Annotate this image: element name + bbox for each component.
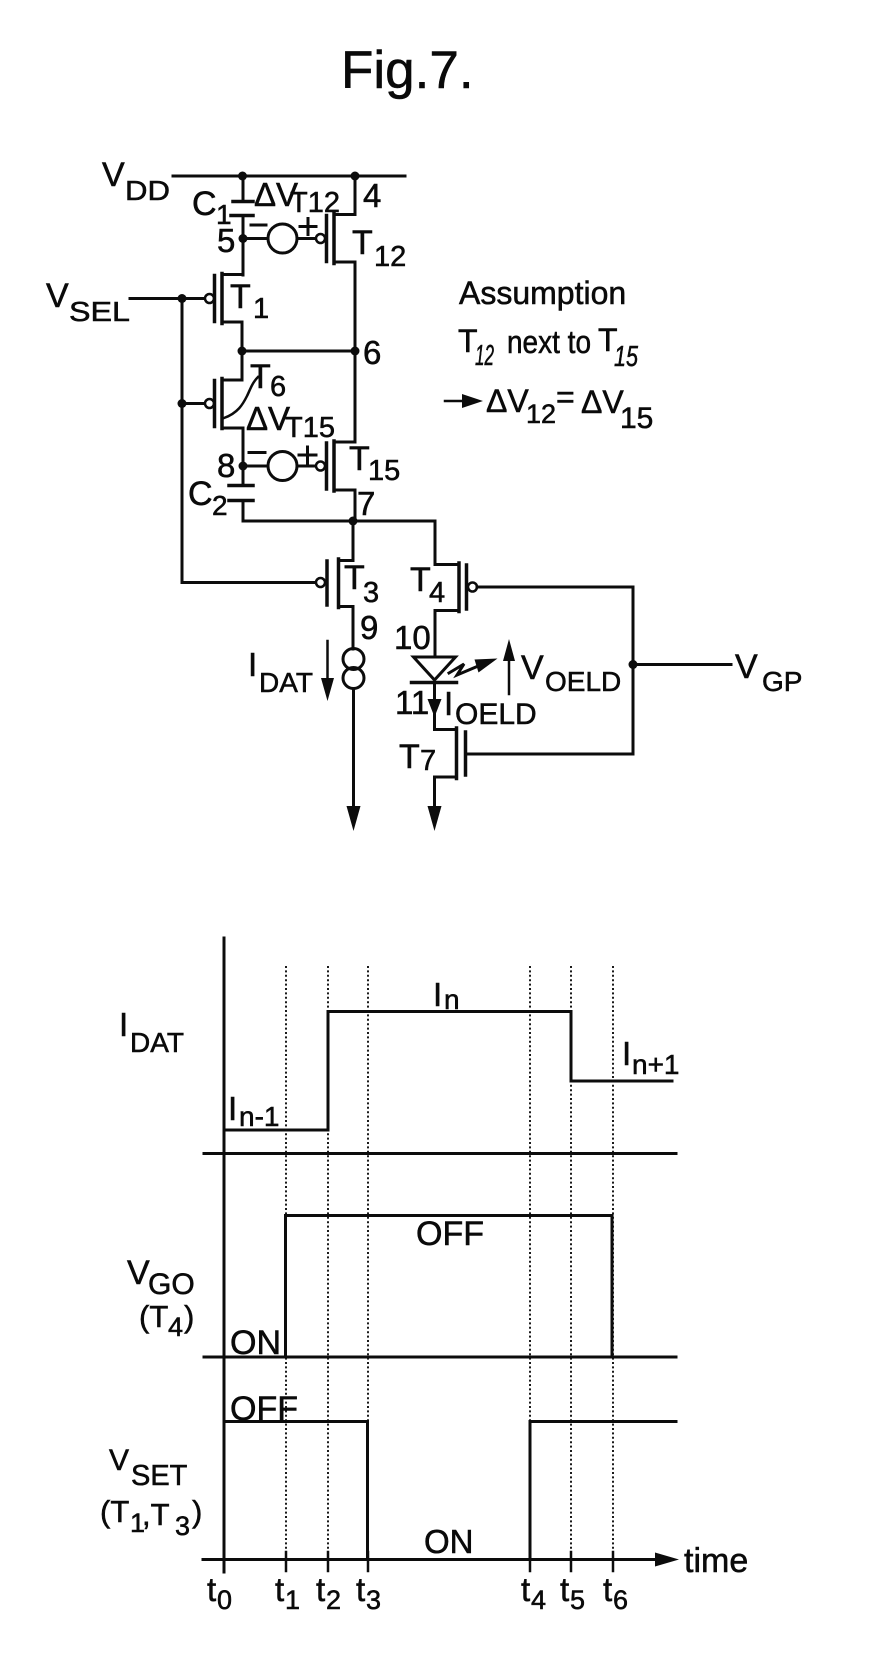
svg-text:DD: DD [125,175,170,206]
wire T6 source to node 8 [242,428,245,466]
gridline t6 [612,966,614,1560]
svg-text:t: t [356,1571,365,1608]
waveform V_SET right [530,1422,676,1560]
label T15 [349,440,400,487]
label I_DAT [248,646,313,698]
svg-text:12: 12 [374,241,406,273]
time axis [203,1553,679,1567]
arrow V_OELD [503,639,515,694]
svg-text:n+1: n+1 [632,1049,680,1080]
label V_SET [109,1444,188,1492]
net VDD label [102,156,170,206]
svg-text:ON: ON [424,1523,474,1560]
wire node 6 to T15 drain [354,351,357,442]
tick t1 [285,1552,288,1571]
wire T15 source to node 7 [354,490,357,521]
svg-text:n: n [444,984,460,1015]
wire node 8 to offset source [243,465,268,468]
label t0 [207,1571,232,1615]
transistor T7 [435,728,466,779]
tick t3 [367,1552,370,1571]
junction node 6 right [351,347,360,356]
waveform V_GO [286,1216,613,1358]
svg-text:6: 6 [613,1585,628,1615]
svg-text:5: 5 [217,222,235,259]
arrow I_DAT [321,641,334,701]
svg-text:3: 3 [175,1511,190,1541]
arrow I_OELD [428,699,442,717]
svg-text:7: 7 [357,485,375,522]
polarity plus (ΔV_T15) [299,447,316,463]
timing diagram vertical axis [223,938,226,1572]
label V_OELD [521,649,621,697]
svg-text:I: I [119,1006,128,1043]
capacitor C1 [231,176,253,216]
svg-text:C: C [188,475,213,513]
label I_OELD [444,685,537,731]
label t4 [521,1571,546,1615]
svg-text:12: 12 [526,399,556,429]
annotation: T12 next to T15 [458,322,639,373]
svg-text:T: T [410,561,431,599]
svg-text:9: 9 [360,609,378,646]
light emission arrow [449,659,498,676]
wire VGP [633,663,731,666]
arrow OELD sink [428,806,442,831]
svg-text:n-1: n-1 [239,1101,279,1132]
svg-text:T: T [352,224,373,262]
svg-text:6: 6 [270,371,286,403]
svg-text:0: 0 [217,1585,232,1615]
gridline t5 [570,966,572,1560]
current source IDAT [343,649,364,689]
tick t2 [327,1552,330,1571]
svg-text:4: 4 [168,1312,183,1342]
label T7 [399,738,436,777]
svg-text:t: t [316,1571,325,1608]
svg-text:): ) [184,1299,194,1334]
svg-text:4: 4 [531,1585,546,1615]
net VSEL label [46,277,130,327]
svg-text:1: 1 [285,1585,300,1615]
svg-text:OFF: OFF [416,1215,484,1253]
svg-text:,T: ,T [142,1497,170,1532]
capacitor C2 [229,466,253,521]
transistor T15 [316,441,355,491]
wire VDD rail [173,175,405,178]
svg-text:ΔV: ΔV [581,384,624,420]
svg-text:5: 5 [570,1585,585,1615]
label I_DAT axis [119,1006,184,1058]
label t2 [316,1571,341,1615]
wire T7 source to sink [433,777,436,810]
svg-text:): ) [192,1494,202,1529]
svg-text:(T: (T [100,1494,129,1529]
svg-text:I: I [228,1090,237,1127]
svg-text:2: 2 [212,490,228,521]
svg-text:=: = [556,379,575,415]
wire node 5 vertical [242,217,245,275]
svg-text:2: 2 [326,1585,341,1615]
svg-text:1: 1 [253,293,269,325]
svg-text:OELD: OELD [455,698,537,731]
net VGP label [735,648,802,697]
svg-text:t: t [560,1571,569,1608]
transistor T6 [205,377,258,429]
svg-text:I: I [622,1035,631,1072]
label t1 [275,1571,300,1615]
wire offset source to T12 gate [297,237,315,240]
junction node 5 [239,234,248,243]
svg-text:15: 15 [614,341,639,373]
svg-text:3: 3 [366,1585,381,1615]
svg-text:T: T [349,440,370,478]
label I_n [433,976,460,1015]
label ΔV_T12 [254,176,340,219]
wire T1 source to node 6 [241,322,244,351]
wire T7 gate [466,753,634,756]
label T3 [344,559,379,609]
label T1 [230,278,269,325]
wire node 7 [243,520,435,523]
tick t5 [570,1552,573,1571]
svg-text:time: time [684,1542,748,1580]
waveform I_DAT [224,1012,672,1131]
tick t6 [612,1552,615,1571]
svg-text:11: 11 [395,684,429,721]
svg-text:t: t [603,1571,612,1608]
wire T3 source to current source [352,607,355,650]
label I_n+1 [622,1035,680,1080]
transistor T3 [316,559,353,608]
label t5 [560,1571,585,1615]
label (T4) [139,1299,194,1342]
svg-text:GO: GO [148,1268,195,1301]
svg-text:V: V [46,277,69,315]
svg-text:4: 4 [363,177,381,214]
svg-text:SEL: SEL [69,296,130,327]
label ΔV_T15 [246,400,335,444]
wire node 7 to T3 drain [352,521,355,561]
gridline t2 [327,966,329,1560]
wire T12 source to node 6 [354,262,357,351]
label T6 [250,358,286,403]
gridline t3 [367,966,369,1560]
svg-text:15: 15 [620,402,653,435]
label T12 [352,224,406,273]
svg-text:I: I [248,646,257,683]
svg-text:next to: next to [507,324,591,360]
svg-text:V: V [102,156,125,194]
svg-text:15: 15 [368,455,400,487]
junction node 7 [349,517,358,526]
label t3 [356,1571,381,1615]
svg-text:Fig.7.: Fig.7. [341,41,474,100]
svg-text:T: T [399,738,420,776]
svg-text:SET: SET [131,1460,188,1492]
svg-text:GP: GP [762,666,802,697]
svg-text:4: 4 [429,577,445,609]
wire T6 gate [182,402,205,405]
junction VSEL branch [178,294,187,303]
wire node 7 to T4 drain [434,521,437,565]
junction VDD / C1 [238,172,247,181]
label t6 [603,1571,628,1615]
wire T6 drain to node 6 [241,351,244,380]
label T4 [410,561,445,609]
svg-text:T15: T15 [285,412,335,444]
junction T6 gate [178,399,187,408]
polarity minus (ΔV_T15) [249,451,265,454]
gridline t1 [285,966,287,1560]
transistor T12 [316,178,355,264]
junction VDD / T12 drain [351,172,360,181]
svg-text:3: 3 [363,577,379,609]
label I_n-1 [228,1090,279,1132]
svg-text:t: t [207,1571,216,1608]
polarity plus (ΔV_T12) [300,219,316,235]
svg-text:T: T [250,358,271,396]
svg-text:Assumption: Assumption [459,275,626,311]
wire offset source to T15 gate [297,465,315,468]
gridline t4 [529,966,531,1560]
svg-text:ΔV: ΔV [486,383,529,419]
wire VSEL branch to T3 gate [182,581,315,584]
wire current source to data sink [352,689,355,811]
wire node 6 [242,350,355,353]
svg-text:V: V [521,649,544,687]
svg-text:C: C [192,185,217,223]
svg-text:I: I [433,976,442,1013]
annotation: ΔV12 = ΔV15 [486,379,653,435]
svg-text:10: 10 [394,619,431,656]
svg-text:T: T [230,278,251,316]
label V_GO [127,1254,195,1301]
arrow data sink [347,806,361,831]
wire T4 gate to net VGP [477,586,633,589]
wire node 5 to offset source [243,237,268,240]
wire VSEL [130,297,205,300]
baseline V_GO [204,1356,676,1359]
svg-text:7: 7 [420,745,436,777]
offset source ΔV_T12 circle [268,224,297,253]
svg-text:6: 6 [363,334,381,371]
offset source ΔV_T15 circle [268,452,297,481]
svg-text:DAT: DAT [130,1027,184,1058]
svg-text:t: t [521,1571,530,1608]
label (T1,T3) [100,1494,202,1541]
svg-text:OELD: OELD [545,666,621,697]
waveform V_SET left [224,1422,368,1560]
svg-text:V: V [109,1444,129,1477]
junction node 6 left [238,347,247,356]
svg-text:8: 8 [217,447,235,484]
wire VGP vertical [632,587,635,754]
svg-text:T: T [344,559,365,597]
svg-text:(T: (T [139,1299,168,1334]
svg-text:I: I [444,685,453,722]
wire OLED cathode to T7 drain [433,684,436,730]
svg-text:DAT: DAT [259,667,313,698]
label C2 [188,475,228,521]
label C1 [192,185,232,230]
polarity minus (ΔV_T12) [251,224,266,227]
OLED diode [412,657,457,683]
svg-text:ΔV: ΔV [246,400,290,437]
junction VGP [629,660,638,669]
svg-text:V: V [127,1254,150,1292]
wire T4 source to OLED anode [434,611,437,657]
junction node 8 [239,462,248,471]
baseline I_DAT [204,1152,676,1155]
transistor T4 [435,563,477,612]
wire VSEL branch vertical [181,299,184,583]
annotation arrow [445,394,483,408]
tick t4 [529,1552,532,1571]
svg-text:V: V [735,648,758,686]
transistor T1 [205,274,243,324]
svg-text:12: 12 [475,340,494,372]
svg-text:t: t [275,1571,284,1608]
